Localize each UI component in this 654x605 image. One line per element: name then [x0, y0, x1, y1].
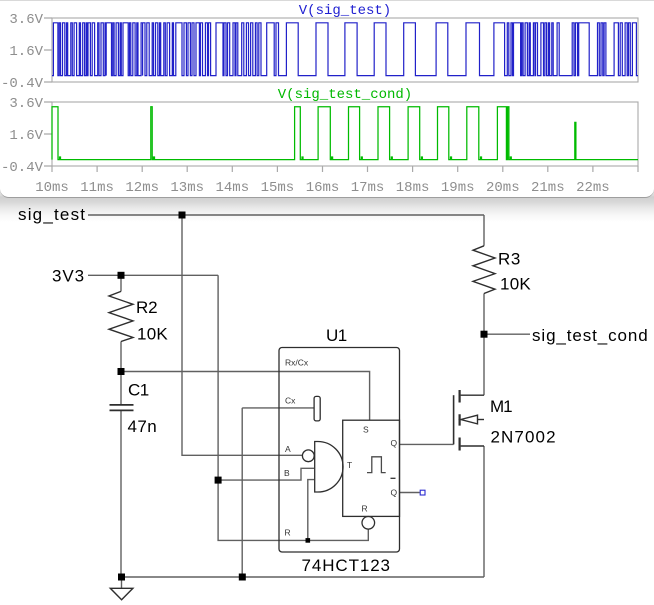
svg-text:-0.4V: -0.4V — [1, 76, 44, 92]
transistor M1 gate bar — [453, 395, 455, 444]
junction node sig_test_cond — [481, 331, 488, 338]
svg-text:Q: Q — [391, 488, 398, 498]
transistor M1 drain stub — [461, 394, 484, 396]
window drop shadow — [0, 186, 654, 226]
svg-text:V(sig_test): V(sig_test) — [299, 3, 391, 19]
svg-text:sig_test_cond: sig_test_cond — [532, 326, 649, 345]
svg-text:B: B — [284, 468, 290, 478]
svg-text:20ms: 20ms — [486, 180, 520, 196]
plot1 y labels — [1, 12, 44, 92]
U1 R-pin inverter bubble — [362, 517, 375, 530]
wire Q output to gate — [400, 443, 454, 445]
U1 internal Cx bar — [314, 396, 320, 421]
svg-text:10K: 10K — [137, 325, 168, 344]
op-amp U1 body (74HCT123 outer box) — [279, 348, 400, 553]
junction node sig_test/R3 — [179, 212, 186, 219]
svg-text:10ms: 10ms — [35, 180, 69, 196]
plot1 y-axis ticks — [44, 18, 52, 82]
svg-text:74HCT123: 74HCT123 — [302, 556, 391, 575]
junction node B input — [215, 477, 222, 484]
svg-text:R: R — [285, 528, 291, 538]
svg-text:3.6V: 3.6V — [9, 12, 43, 28]
wire gate lower input from R net — [308, 480, 314, 541]
svg-text:17ms: 17ms — [351, 180, 385, 196]
wire Cx pin — [242, 408, 314, 577]
transistor M1 channel bars — [459, 390, 461, 451]
svg-text:R: R — [362, 504, 368, 514]
wire Rx/Cx to R2/C1 node — [121, 372, 370, 421]
svg-text:S: S — [363, 425, 369, 435]
U1 internal NAND gate — [315, 442, 343, 493]
wire C1 bottom to ground rail — [120, 411, 122, 577]
svg-text:13ms: 13ms — [170, 180, 204, 196]
time axis ticks — [52, 166, 638, 172]
wire Qbar stub — [400, 492, 420, 494]
ground symbol — [110, 588, 133, 600]
transistor M1 source stub — [461, 445, 484, 447]
junction node gate input / R wire — [306, 538, 311, 543]
wire R3 bottom to sig_test_cond node — [483, 294, 485, 335]
svg-text:3V3: 3V3 — [52, 267, 85, 286]
svg-text:Rx/Cx: Rx/Cx — [285, 358, 309, 368]
svg-text:Cx: Cx — [285, 395, 296, 405]
svg-text:Q: Q — [391, 438, 398, 448]
plot2 y-axis ticks — [44, 102, 52, 166]
wire net sig_test top — [88, 214, 484, 216]
port marker Qbar (blue) — [420, 490, 425, 495]
junction node ground rail / Cx — [239, 574, 246, 581]
U1 internal pulse glyph — [367, 457, 386, 473]
svg-text:10K: 10K — [500, 275, 531, 294]
plot pane 2 frame — [52, 102, 638, 166]
wire ground rail — [122, 576, 485, 578]
wire R3 top lead — [483, 215, 485, 246]
trace V(sig_test) — [52, 23, 638, 76]
junction node 3V3/R2 — [118, 272, 125, 279]
U1 A-input inverter bubble — [302, 450, 314, 462]
wire sig_test to A input — [182, 215, 302, 455]
wire R2 top lead — [120, 275, 122, 291]
svg-text:U1: U1 — [326, 326, 347, 345]
svg-text:V(sig_test_cond): V(sig_test_cond) — [278, 87, 412, 103]
svg-text:R3: R3 — [498, 250, 521, 269]
junction node R2/C1/RxCx — [118, 368, 125, 375]
plot2 y labels — [1, 96, 44, 176]
svg-text:2N7002: 2N7002 — [491, 428, 557, 447]
svg-text:C1: C1 — [128, 381, 149, 400]
plot pane 1 frame — [52, 18, 638, 82]
svg-text:3.6V: 3.6V — [9, 96, 43, 112]
svg-text:M1: M1 — [490, 397, 512, 416]
svg-text:19ms: 19ms — [441, 180, 475, 196]
wire M1 source down — [483, 446, 485, 577]
junction node ground rail left — [118, 574, 125, 581]
svg-text:21ms: 21ms — [531, 180, 565, 196]
time axis labels — [35, 180, 610, 196]
svg-text:47n: 47n — [128, 417, 158, 436]
svg-text:1.6V: 1.6V — [9, 128, 43, 144]
capacitor C1 — [110, 405, 134, 411]
svg-text:14ms: 14ms — [215, 180, 249, 196]
svg-text:-0.4V: -0.4V — [1, 160, 44, 176]
U1 internal one-shot sub-block — [343, 420, 400, 516]
wire B input — [218, 468, 314, 480]
transistor M1 body stub and arrow — [461, 415, 484, 424]
svg-text:T: T — [347, 460, 352, 470]
wire 3V3 down to R pin — [218, 275, 368, 540]
wire R2 bottom lead to C1 — [120, 342, 122, 405]
svg-text:18ms: 18ms — [396, 180, 430, 196]
svg-text:15ms: 15ms — [261, 180, 295, 196]
svg-text:16ms: 16ms — [306, 180, 340, 196]
resistor R2 — [109, 291, 133, 341]
svg-text:12ms: 12ms — [125, 180, 159, 196]
resistor R3 — [473, 246, 495, 294]
wire net sig_test_cond — [484, 333, 530, 335]
svg-text:sig_test: sig_test — [18, 205, 86, 224]
svg-text:R2: R2 — [136, 298, 157, 317]
svg-text:A: A — [285, 444, 291, 454]
wire ground stem — [121, 577, 123, 588]
wire drain M1 — [483, 334, 485, 395]
svg-text:1.6V: 1.6V — [9, 44, 43, 60]
wire net 3V3 — [88, 274, 218, 276]
trace V(sig_test_cond) — [52, 107, 638, 160]
svg-text:11ms: 11ms — [80, 180, 114, 196]
waveform viewer window — [0, 0, 654, 198]
svg-text:22ms: 22ms — [576, 180, 610, 196]
